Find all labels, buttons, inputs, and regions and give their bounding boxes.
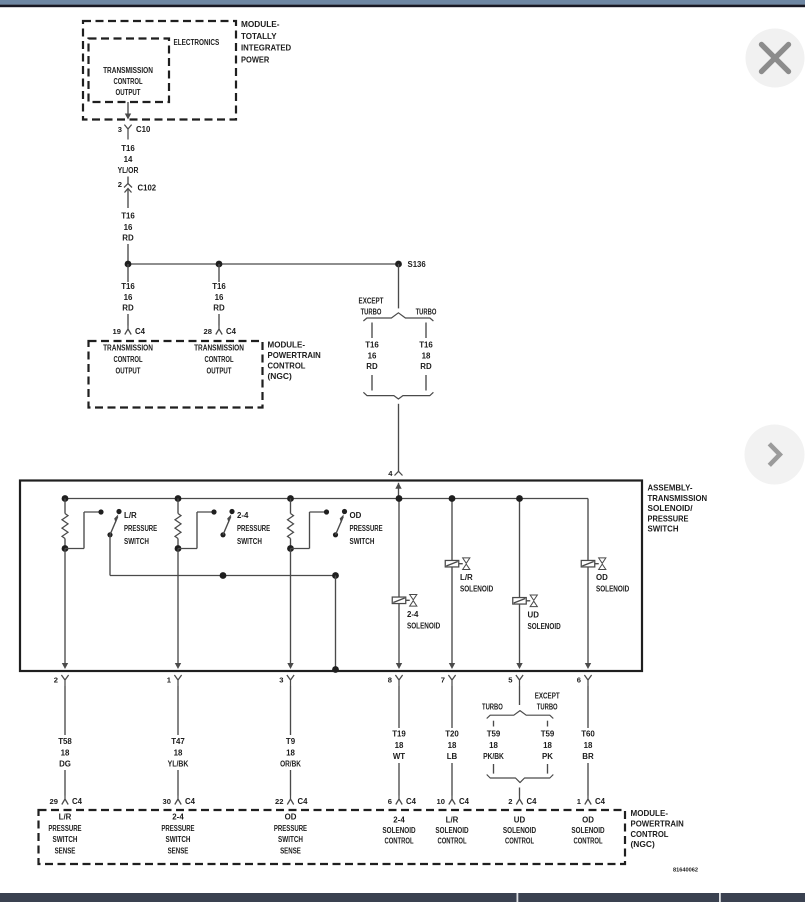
svg-text:3: 3 [279, 676, 283, 685]
svg-text:CONTROL: CONTROL [204, 355, 233, 364]
svg-text:16: 16 [124, 223, 133, 232]
svg-text:SOLENOID: SOLENOID [528, 622, 561, 631]
svg-text:OD: OD [350, 511, 362, 520]
svg-text:T60: T60 [581, 730, 595, 739]
svg-text:TOTALLY: TOTALLY [241, 31, 277, 41]
svg-text:SOLENOID: SOLENOID [596, 585, 629, 594]
svg-text:C4: C4 [135, 327, 146, 336]
svg-text:2-4: 2-4 [393, 816, 405, 825]
svg-text:L/R: L/R [124, 511, 137, 520]
svg-text:ASSEMBLY-: ASSEMBLY- [648, 483, 693, 493]
svg-text:2-4: 2-4 [407, 610, 419, 619]
svg-text:UD: UD [514, 816, 526, 825]
svg-text:3: 3 [118, 125, 122, 134]
svg-text:TRANSMISSION: TRANSMISSION [103, 66, 153, 75]
svg-text:C102: C102 [138, 184, 157, 193]
svg-text:CONTROL: CONTROL [384, 837, 413, 846]
svg-text:6: 6 [388, 797, 392, 806]
svg-text:7: 7 [441, 676, 445, 685]
svg-text:L/R: L/R [446, 816, 459, 825]
svg-text:TRANSMISSION: TRANSMISSION [194, 344, 244, 353]
svg-text:EXCEPT: EXCEPT [535, 692, 560, 701]
svg-text:(NGC): (NGC) [631, 839, 655, 849]
svg-text:OUTPUT: OUTPUT [116, 88, 141, 97]
svg-text:PK/BK: PK/BK [483, 752, 504, 761]
svg-text:18: 18 [422, 352, 431, 361]
svg-text:2: 2 [508, 797, 512, 806]
svg-text:PRESSURE: PRESSURE [48, 824, 81, 833]
svg-text:8: 8 [388, 676, 392, 685]
svg-text:UD: UD [528, 610, 540, 619]
svg-text:PRESSURE: PRESSURE [350, 524, 383, 533]
svg-text:TURBO: TURBO [537, 703, 558, 712]
svg-text:18: 18 [584, 741, 593, 750]
svg-text:SWITCH: SWITCH [237, 537, 262, 546]
svg-text:SWITCH: SWITCH [648, 524, 679, 534]
svg-text:SWITCH: SWITCH [278, 835, 303, 844]
svg-text:SOLENOID: SOLENOID [503, 826, 536, 835]
svg-text:L/R: L/R [59, 813, 72, 822]
svg-text:C4: C4 [226, 327, 237, 336]
svg-text:S136: S136 [408, 260, 427, 269]
svg-text:DG: DG [59, 760, 71, 769]
svg-text:PRESSURE: PRESSURE [237, 524, 270, 533]
svg-text:2: 2 [54, 676, 58, 685]
svg-text:L/R: L/R [460, 573, 473, 582]
svg-text:OD: OD [596, 573, 608, 582]
svg-text:18: 18 [489, 741, 498, 750]
svg-text:TRANSMISSION: TRANSMISSION [648, 493, 708, 503]
svg-text:T16: T16 [121, 282, 135, 291]
svg-text:YL/OR: YL/OR [118, 166, 139, 175]
svg-text:T47: T47 [171, 737, 185, 746]
svg-text:TURBO: TURBO [482, 703, 503, 712]
svg-text:T59: T59 [487, 730, 501, 739]
svg-text:CONTROL: CONTROL [268, 361, 306, 371]
svg-text:TRANSMISSION: TRANSMISSION [103, 344, 153, 353]
svg-text:WT: WT [393, 752, 405, 761]
svg-text:C4: C4 [527, 797, 538, 806]
svg-text:PRESSURE: PRESSURE [648, 513, 689, 523]
svg-text:18: 18 [543, 741, 552, 750]
svg-text:C4: C4 [185, 797, 196, 806]
svg-text:T16: T16 [121, 144, 135, 153]
svg-text:PRESSURE: PRESSURE [274, 824, 307, 833]
svg-text:MODULE-: MODULE- [631, 808, 669, 818]
svg-text:SOLENOID/: SOLENOID/ [648, 503, 694, 513]
svg-text:SENSE: SENSE [55, 847, 76, 856]
svg-text:OUTPUT: OUTPUT [207, 367, 232, 376]
svg-text:T20: T20 [445, 730, 459, 739]
svg-text:RD: RD [366, 362, 378, 371]
svg-text:SENSE: SENSE [168, 847, 189, 856]
svg-text:POWERTRAIN: POWERTRAIN [631, 819, 684, 829]
svg-text:30: 30 [163, 797, 171, 806]
svg-text:SOLENOID: SOLENOID [382, 826, 415, 835]
svg-text:18: 18 [174, 749, 183, 758]
svg-text:16: 16 [124, 293, 133, 302]
svg-text:T16: T16 [365, 341, 379, 350]
svg-text:BR: BR [582, 752, 594, 761]
svg-text:SWITCH: SWITCH [124, 537, 149, 546]
svg-text:POWERTRAIN: POWERTRAIN [268, 350, 321, 360]
svg-text:SWITCH: SWITCH [166, 835, 191, 844]
svg-text:CONTROL: CONTROL [437, 837, 466, 846]
svg-text:OUTPUT: OUTPUT [116, 367, 141, 376]
svg-text:PRESSURE: PRESSURE [161, 824, 194, 833]
svg-text:14: 14 [124, 155, 133, 164]
svg-text:SOLENOID: SOLENOID [571, 826, 604, 835]
svg-text:16: 16 [215, 293, 224, 302]
svg-text:2-4: 2-4 [172, 813, 184, 822]
svg-text:T9: T9 [286, 737, 296, 746]
svg-text:INTEGRATED: INTEGRATED [241, 43, 291, 53]
svg-text:ELECTRONICS: ELECTRONICS [174, 38, 220, 47]
svg-text:SWITCH: SWITCH [350, 537, 375, 546]
svg-text:2: 2 [118, 180, 122, 189]
svg-text:18: 18 [61, 749, 70, 758]
svg-text:81640062: 81640062 [673, 868, 698, 874]
svg-text:RD: RD [213, 304, 225, 313]
svg-text:C4: C4 [72, 797, 83, 806]
svg-text:CONTROL: CONTROL [505, 837, 534, 846]
svg-text:OD: OD [582, 816, 594, 825]
svg-text:TURBO: TURBO [361, 308, 382, 317]
svg-text:29: 29 [50, 797, 58, 806]
svg-text:POWER: POWER [241, 54, 269, 64]
svg-text:CONTROL: CONTROL [573, 837, 602, 846]
svg-text:RD: RD [122, 304, 134, 313]
svg-text:EXCEPT: EXCEPT [359, 297, 384, 306]
svg-text:28: 28 [204, 327, 212, 336]
svg-text:6: 6 [577, 676, 581, 685]
svg-text:C10: C10 [136, 125, 151, 134]
svg-text:T16: T16 [212, 282, 226, 291]
svg-text:RD: RD [122, 234, 134, 243]
svg-text:SOLENOID: SOLENOID [407, 621, 440, 630]
svg-text:SWITCH: SWITCH [53, 835, 78, 844]
svg-text:19: 19 [113, 327, 121, 336]
svg-text:MODULE-: MODULE- [241, 19, 280, 29]
svg-text:SOLENOID: SOLENOID [460, 585, 493, 594]
svg-text:T16: T16 [419, 341, 433, 350]
svg-text:18: 18 [286, 749, 295, 758]
svg-text:SOLENOID: SOLENOID [435, 826, 468, 835]
svg-text:PRESSURE: PRESSURE [124, 524, 157, 533]
svg-text:TURBO: TURBO [416, 308, 437, 317]
svg-text:LB: LB [447, 752, 458, 761]
svg-text:C4: C4 [406, 797, 417, 806]
svg-text:RD: RD [420, 362, 432, 371]
svg-text:C4: C4 [595, 797, 606, 806]
svg-text:OD: OD [285, 813, 297, 822]
svg-text:T16: T16 [121, 212, 135, 221]
svg-text:C4: C4 [459, 797, 470, 806]
svg-text:C4: C4 [298, 797, 309, 806]
svg-text:18: 18 [395, 741, 404, 750]
svg-text:22: 22 [275, 797, 283, 806]
svg-text:(NGC): (NGC) [268, 371, 292, 381]
svg-text:2-4: 2-4 [237, 511, 249, 520]
svg-text:T58: T58 [58, 737, 72, 746]
svg-text:T19: T19 [392, 730, 406, 739]
svg-text:SENSE: SENSE [280, 847, 301, 856]
svg-text:OR/BK: OR/BK [280, 760, 301, 769]
svg-text:10: 10 [437, 797, 445, 806]
svg-text:T59: T59 [541, 730, 555, 739]
svg-text:16: 16 [368, 352, 377, 361]
svg-text:CONTROL: CONTROL [113, 355, 142, 364]
svg-text:18: 18 [448, 741, 457, 750]
svg-text:YL/BK: YL/BK [168, 760, 189, 769]
svg-text:CONTROL: CONTROL [631, 829, 669, 839]
svg-text:PK: PK [542, 752, 553, 761]
svg-text:CONTROL: CONTROL [113, 77, 142, 86]
svg-text:MODULE-: MODULE- [268, 340, 306, 350]
